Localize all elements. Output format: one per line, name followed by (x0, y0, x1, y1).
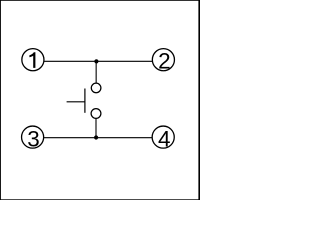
wire: terminal 1 to top junction (44, 60, 96, 62)
wire: vertical stub from top junction to upper contact (95, 61, 97, 83)
svg-text:2: 2 (158, 48, 171, 73)
junction dot (node joining terminals 1-2 and switch) (94, 59, 98, 63)
wire: vertical stub from lower contact to bottom junction (95, 118, 97, 137)
terminal 3 (22, 126, 44, 151)
wire: top junction to terminal 2 (96, 60, 152, 62)
terminal 1 (22, 49, 44, 71)
switch S1 lower fixed contact (91, 109, 101, 119)
wire: bottom junction to terminal 4 (96, 137, 152, 139)
wire: terminal 3 to bottom junction (44, 137, 96, 139)
svg-text:4: 4 (158, 126, 171, 151)
pushbutton actuator bar (84, 89, 86, 113)
terminal 4 (152, 126, 174, 151)
terminal 2 (152, 48, 174, 73)
pushbutton actuator stem (67, 101, 85, 103)
switch S1 upper fixed contact (91, 83, 101, 93)
svg-text:3: 3 (27, 126, 40, 151)
junction dot (node joining terminals 3-4 and switch) (94, 135, 98, 139)
